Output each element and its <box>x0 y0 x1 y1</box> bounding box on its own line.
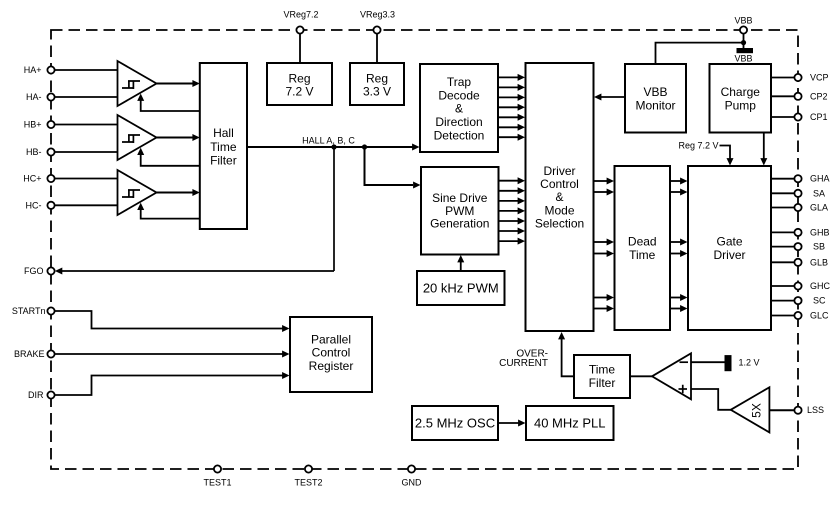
svg-text:Reg: Reg <box>288 72 310 86</box>
svg-text:Trap: Trap <box>447 75 472 89</box>
svg-text:Driver: Driver <box>714 248 746 262</box>
svg-text:Dead: Dead <box>628 235 657 249</box>
svg-text:Time: Time <box>589 363 616 377</box>
svg-text:1.2 V: 1.2 V <box>739 357 760 367</box>
svg-text:VBB: VBB <box>734 54 752 64</box>
svg-text:3.3 V: 3.3 V <box>363 85 391 99</box>
svg-text:Pump: Pump <box>725 98 757 112</box>
svg-text:Parallel: Parallel <box>311 332 351 346</box>
svg-text:VReg7.2: VReg7.2 <box>283 10 318 20</box>
svg-text:7.2 V: 7.2 V <box>285 85 313 99</box>
svg-text:Monitor: Monitor <box>635 98 675 112</box>
svg-text:Mode: Mode <box>544 203 574 217</box>
svg-text:HB+: HB+ <box>24 120 42 130</box>
svg-text:Direction: Direction <box>435 115 482 129</box>
svg-text:CP1: CP1 <box>810 112 828 122</box>
svg-text:Selection: Selection <box>535 217 584 231</box>
svg-text:DIR: DIR <box>28 390 44 400</box>
svg-text:VReg3.3: VReg3.3 <box>360 10 395 20</box>
svg-text:GLC: GLC <box>810 311 829 321</box>
svg-text:Reg: Reg <box>366 72 388 86</box>
svg-text:SA: SA <box>813 188 825 198</box>
svg-text:STARTn: STARTn <box>12 306 46 316</box>
svg-text:VCP: VCP <box>810 73 829 83</box>
svg-text:Time: Time <box>629 248 656 262</box>
svg-text:Detection: Detection <box>434 129 485 143</box>
svg-text:&: & <box>555 190 563 204</box>
svg-text:GHB: GHB <box>810 227 830 237</box>
svg-text:TEST2: TEST2 <box>294 478 322 488</box>
svg-text:SB: SB <box>813 242 825 252</box>
svg-text:Time: Time <box>210 140 237 154</box>
svg-text:20 kHz PWM: 20 kHz PWM <box>423 281 499 296</box>
svg-text:Hall: Hall <box>213 126 234 140</box>
svg-text:SC: SC <box>813 296 826 306</box>
svg-text:GLA: GLA <box>810 203 828 213</box>
svg-text:&: & <box>455 102 463 116</box>
svg-text:Generation: Generation <box>430 217 489 231</box>
svg-text:HA+: HA+ <box>24 65 42 75</box>
svg-text:HALL A, B, C: HALL A, B, C <box>302 136 355 146</box>
svg-text:Driver: Driver <box>544 164 576 178</box>
svg-text:Decode: Decode <box>438 88 480 102</box>
svg-text:Control: Control <box>540 177 579 191</box>
svg-text:CP2: CP2 <box>810 91 828 101</box>
svg-text:Control: Control <box>312 346 351 360</box>
svg-text:HC+: HC+ <box>23 174 41 184</box>
svg-text:HB-: HB- <box>26 147 42 157</box>
svg-text:Reg 7.2 V: Reg 7.2 V <box>678 141 718 151</box>
svg-text:5X: 5X <box>750 403 764 418</box>
svg-text:VBB: VBB <box>643 85 667 99</box>
svg-text:Gate: Gate <box>716 235 742 249</box>
svg-text:GHA: GHA <box>810 174 830 184</box>
svg-text:Register: Register <box>309 359 354 373</box>
svg-text:LSS: LSS <box>807 405 824 415</box>
svg-text:GLB: GLB <box>810 257 828 267</box>
svg-text:Filter: Filter <box>210 153 237 167</box>
svg-text:FGO: FGO <box>24 266 44 276</box>
svg-text:TEST1: TEST1 <box>203 478 231 488</box>
svg-text:40 MHz PLL: 40 MHz PLL <box>534 416 606 431</box>
svg-text:GND: GND <box>402 478 423 488</box>
svg-text:GHC: GHC <box>810 281 831 291</box>
svg-text:BRAKE: BRAKE <box>14 349 45 359</box>
svg-text:HA-: HA- <box>26 92 42 102</box>
svg-text:Filter: Filter <box>589 376 616 390</box>
svg-text:VBB: VBB <box>734 16 752 26</box>
svg-text:CURRENT: CURRENT <box>499 358 548 369</box>
svg-text:Charge: Charge <box>721 85 761 99</box>
svg-text:2.5 MHz OSC: 2.5 MHz OSC <box>415 416 495 431</box>
svg-text:HC-: HC- <box>26 200 42 210</box>
